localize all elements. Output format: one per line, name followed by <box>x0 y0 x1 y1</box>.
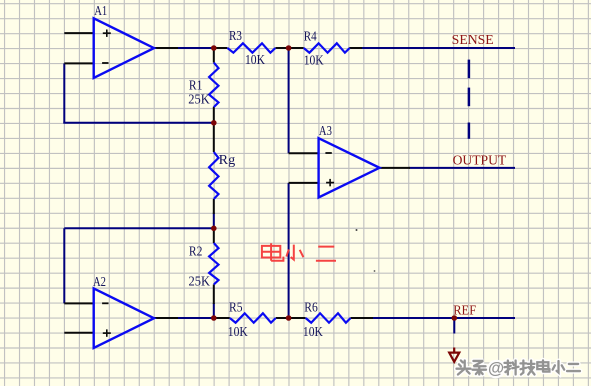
svg-text:R6: R6 <box>304 300 318 315</box>
svg-text:R3: R3 <box>229 28 242 43</box>
svg-text:SENSE: SENSE <box>452 32 494 47</box>
svg-text:R2: R2 <box>189 244 203 259</box>
svg-text:A3: A3 <box>319 123 332 138</box>
svg-text:OUTPUT: OUTPUT <box>453 152 507 167</box>
svg-text:R5: R5 <box>229 300 243 315</box>
svg-text:A2: A2 <box>93 274 106 289</box>
svg-text:10K: 10K <box>228 324 248 339</box>
svg-text:10K: 10K <box>304 53 324 68</box>
svg-text:Rg: Rg <box>219 152 236 167</box>
svg-text:R1: R1 <box>189 78 203 93</box>
svg-text:R4: R4 <box>304 29 317 44</box>
svg-text:10K: 10K <box>303 324 323 339</box>
svg-text:REF: REF <box>453 303 476 318</box>
svg-text:A1: A1 <box>94 3 107 18</box>
svg-text:25K: 25K <box>189 274 211 289</box>
svg-text:25K: 25K <box>188 92 210 107</box>
svg-text:@: @ <box>488 360 504 378</box>
svg-text:10K: 10K <box>245 52 265 67</box>
